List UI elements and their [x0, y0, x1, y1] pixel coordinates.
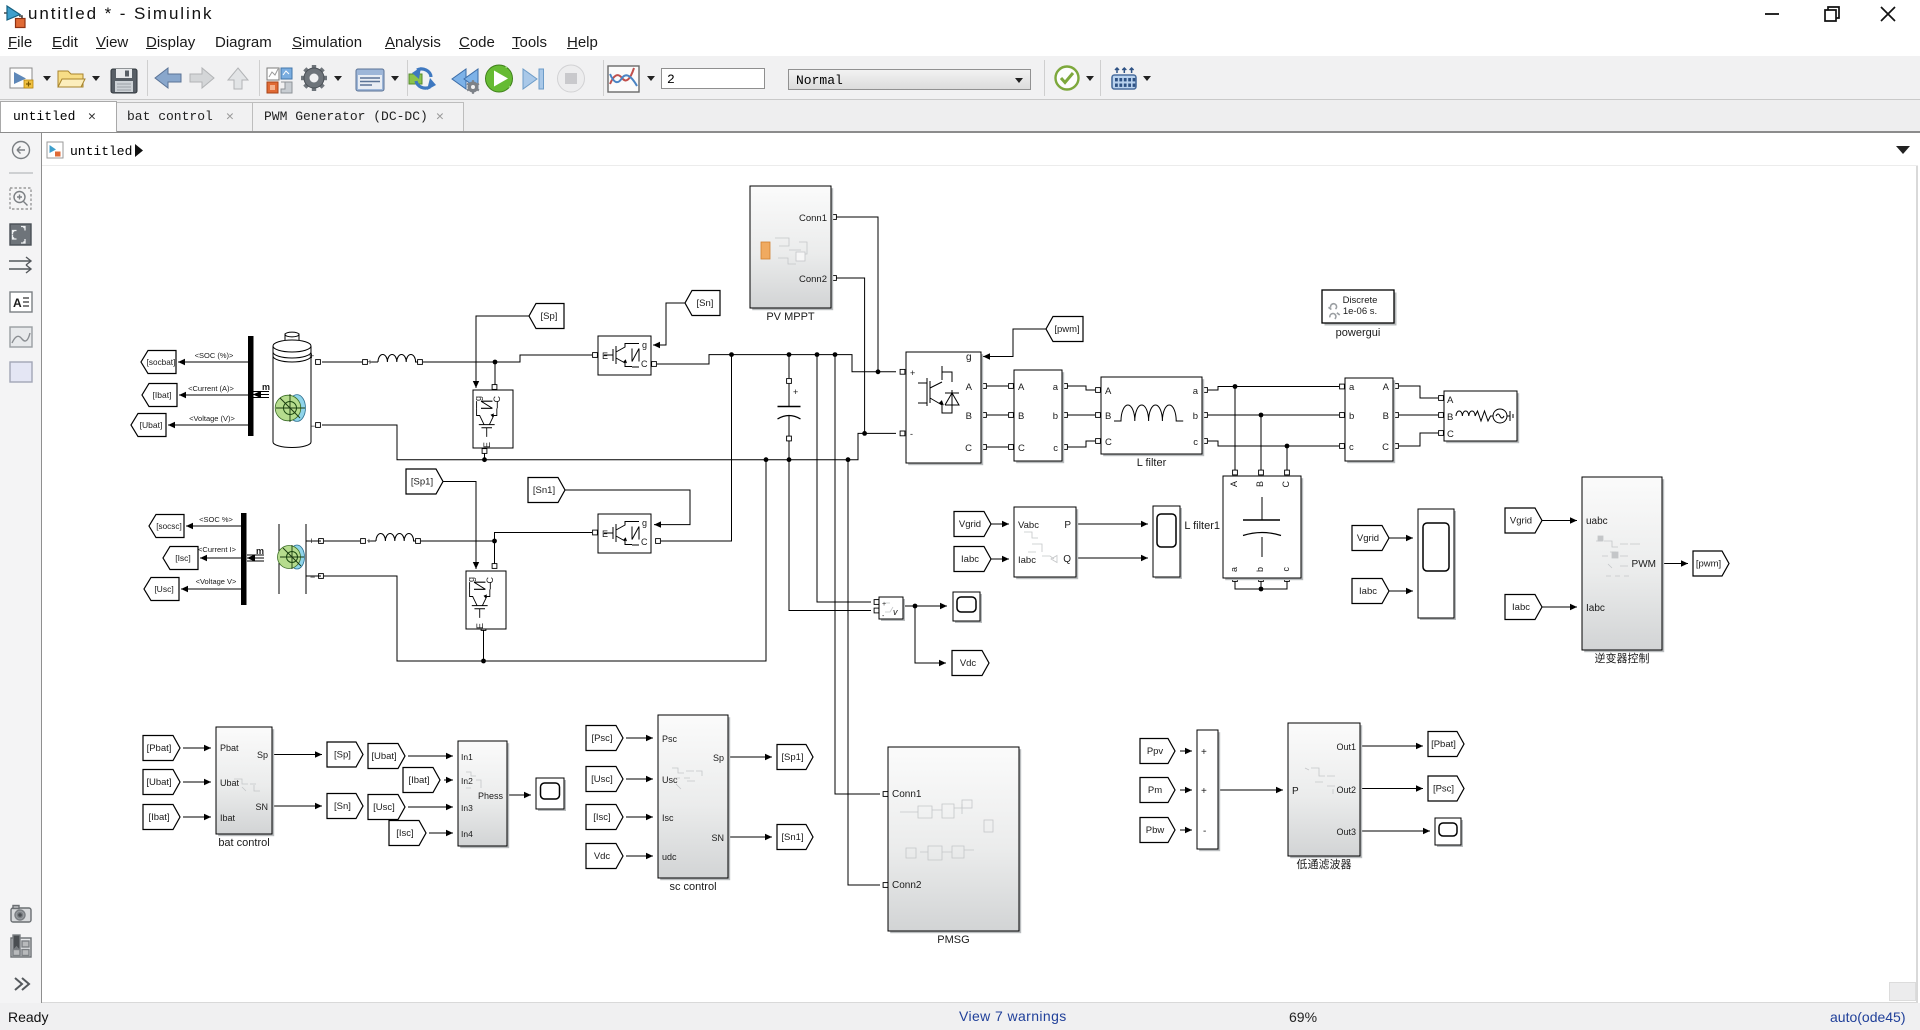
wire from Iabc to PQ Iabc	[990, 556, 1009, 562]
svg-text:b: b	[1193, 411, 1198, 422]
DC link capacitor C1	[778, 355, 801, 460]
svg-text:bat control: bat control	[218, 837, 269, 849]
wire Vdc to sc control udc	[626, 853, 653, 859]
wire sc control SN to goto [Sn1]	[728, 834, 772, 840]
svg-text:[Sp1]: [Sp1]	[781, 752, 803, 763]
wire IGBT1 C to DC+ bus to bridge +, junction nodes	[652, 352, 905, 374]
svg-text:powergui: powergui	[1336, 327, 1381, 339]
wire node a down to C filter bank A	[1233, 387, 1238, 475]
svg-text:Ibat: Ibat	[220, 813, 236, 823]
from tag [Ubat] phess	[368, 744, 405, 769]
wire inductor L2 to IGBT4 E, node J2	[416, 530, 598, 543]
svg-text:Ppv: Ppv	[1147, 746, 1164, 757]
wire L filter a to measurement2 a, node to C filter A	[1203, 384, 1345, 392]
svg-text:A: A	[966, 382, 973, 393]
svg-text:+: +	[882, 601, 886, 608]
goto tag [Pbat]	[1428, 732, 1464, 757]
svg-text:A: A	[1018, 382, 1025, 393]
svg-text:[pwm]: [pwm]	[1054, 324, 1079, 335]
svg-text:1e-06 s.: 1e-06 s.	[1343, 306, 1377, 317]
wire PQ P to scope PQ	[1076, 521, 1148, 527]
wire measurement2 B to grid source B	[1394, 413, 1444, 418]
wire measurement2 A to grid source A	[1394, 384, 1444, 401]
svg-text:+: +	[309, 351, 314, 361]
wire voltage measurement v to scope Vdc	[905, 603, 947, 609]
wire bridge phase B to measurement1 B	[982, 413, 1014, 418]
svg-text:E: E	[482, 442, 492, 448]
svg-text:b: b	[1053, 411, 1058, 422]
svg-text:Conn2: Conn2	[892, 880, 922, 891]
IGBT1 chopper upper (battery) symbol	[604, 344, 639, 368]
from tag Iabc inverter	[1505, 595, 1542, 620]
bat control inner sketch	[234, 779, 260, 791]
wire measurement2 C to grid source C	[1394, 431, 1444, 449]
wire bat control SN to goto [Sn]	[272, 803, 322, 809]
wire bus-selector1 SOC to [socbat], arrow	[178, 359, 248, 365]
scope grid Vgrid/Iabc	[1418, 509, 1456, 620]
wire PQ Q to scope PQ	[1076, 555, 1148, 561]
svg-text:g: g	[466, 577, 476, 582]
wire bus-selector1 Current to [Ibat], arrow	[179, 392, 248, 398]
svg-text:g: g	[966, 352, 972, 363]
svg-text:[Ibat]: [Ibat]	[408, 775, 429, 786]
svg-text:PWM: PWM	[1632, 559, 1656, 570]
inverter control inner sketch	[1596, 536, 1640, 576]
svg-text:Q: Q	[1063, 554, 1071, 565]
svg-text:Phess: Phess	[478, 791, 504, 801]
svg-text:B: B	[1105, 411, 1111, 422]
bus selector 1 (battery measurements)	[248, 336, 254, 436]
svg-text:Iabc: Iabc	[1512, 602, 1530, 613]
wire measurement1 a to L filter A	[1063, 384, 1101, 393]
wire Ppv to sum +	[1180, 748, 1192, 754]
svg-text:uabc: uabc	[1586, 516, 1608, 527]
svg-text:c: c	[1281, 567, 1291, 572]
svg-text:[Usc]: [Usc]	[591, 774, 613, 785]
from tag [Psc]	[586, 726, 623, 751]
from tag Vgrid pq	[954, 512, 991, 537]
wire measurement1 c to L filter C	[1063, 439, 1101, 450]
from tag Pm	[1140, 778, 1175, 803]
inductor L2 series RL branch	[367, 534, 418, 546]
svg-text:udc: udc	[662, 852, 677, 862]
from tag [Ibat] row3	[143, 805, 180, 830]
display low-pass Out3	[1435, 818, 1463, 847]
svg-text:In1: In1	[461, 752, 473, 762]
wire supercap - bus up to DC- bus	[319, 460, 766, 661]
wire inductor L1 to IGBT1 E, node J1	[418, 353, 598, 365]
svg-text:Vgrid: Vgrid	[959, 519, 981, 530]
svg-text:[Usc]: [Usc]	[373, 802, 395, 813]
wire [Psc] to sc control Psc	[626, 735, 653, 741]
svg-text:C: C	[1382, 442, 1389, 453]
wire [Sn] to IGBT1 gate g	[653, 303, 685, 348]
svg-text:[Pbat]: [Pbat]	[147, 743, 172, 754]
svg-text:c: c	[1053, 443, 1058, 454]
svg-text:SN: SN	[711, 833, 724, 843]
svg-text:Discrete: Discrete	[1343, 295, 1378, 306]
svg-text:A: A	[1383, 382, 1390, 393]
wire [Ubat] to bat control Ubat	[183, 779, 211, 785]
wire from Vgrid to inverter control uabc	[1541, 517, 1577, 523]
three-phase VI measurement 1	[1014, 370, 1064, 463]
svg-text:Usc: Usc	[662, 775, 678, 785]
svg-text:Sp: Sp	[713, 753, 724, 763]
svg-text:C: C	[1018, 443, 1025, 454]
svg-text:+: +	[368, 358, 373, 367]
L filter inductor drawing	[1114, 405, 1183, 421]
from tag [Ibat] phess	[403, 768, 440, 793]
wire bridge phase A to measurement1 A	[982, 384, 1014, 389]
from tag Vdc	[586, 844, 623, 869]
goto tag [Ubat]	[131, 414, 166, 437]
wire from Vgrid to PQ Vabc	[990, 521, 1009, 527]
wire inverter control PWM to goto [pwm]	[1662, 560, 1688, 566]
svg-text:Pbw: Pbw	[1146, 825, 1165, 836]
svg-text:[Sn]: [Sn]	[697, 298, 714, 309]
from tag [Sn1]	[528, 478, 565, 503]
goto tag [socsc]	[149, 515, 184, 538]
wire measurement1 b to L filter B	[1063, 413, 1101, 418]
C filter bank rotated port labels and capacitor drawing	[1184, 481, 1291, 573]
svg-text:C: C	[641, 359, 648, 369]
IGBT3 chopper lower (supercap)	[466, 571, 506, 629]
svg-text:Iabc: Iabc	[961, 554, 979, 565]
svg-text:C: C	[1447, 429, 1454, 440]
svg-text:E: E	[475, 623, 485, 629]
svg-text:E: E	[602, 351, 608, 361]
svg-text:Vdc: Vdc	[960, 658, 977, 669]
svg-text:[socbat]: [socbat]	[147, 358, 176, 367]
wire from Vgrid to scope grid	[1389, 535, 1413, 541]
sc control inner sketch	[672, 768, 702, 789]
from tag Ppv	[1140, 739, 1175, 764]
wire node J2 down to IGBT3 C	[492, 541, 497, 568]
svg-text:a: a	[1349, 382, 1355, 393]
wire [Isc] to Phess In4	[429, 830, 453, 836]
wire [Sn1] to IGBT4 gate g	[564, 490, 690, 528]
svg-text:a: a	[1193, 386, 1199, 397]
wire L filter b to measurement2 b, node to C filter B	[1203, 413, 1345, 418]
svg-text:SN: SN	[255, 802, 268, 812]
svg-text:Iabc: Iabc	[1018, 555, 1036, 566]
svg-text:[Ubat]: [Ubat]	[371, 751, 396, 762]
svg-text:Vdc: Vdc	[594, 851, 611, 862]
battery m measurement bus wire	[253, 382, 270, 398]
svg-text:C: C	[965, 443, 972, 454]
svg-text:−: −	[310, 421, 315, 431]
wire Pbw to sum -	[1180, 827, 1192, 833]
svg-text:[Sn1]: [Sn1]	[533, 485, 555, 496]
IGBT4 chopper upper (supercap)	[598, 514, 651, 553]
svg-text:Ubat: Ubat	[220, 778, 240, 788]
wire DC- to voltage measurement -	[789, 460, 879, 613]
wire [Usc] to sc control Usc	[626, 776, 653, 782]
svg-text:A: A	[1447, 395, 1454, 406]
svg-text:-: -	[910, 429, 913, 439]
subsystem sc control	[658, 715, 730, 893]
svg-text:+: +	[793, 387, 798, 397]
from tag Iabc pq	[954, 547, 991, 572]
powergui block	[1322, 290, 1397, 339]
wire bus-selector2 Current to [Isc], arrow	[200, 555, 241, 561]
display Phess	[536, 778, 566, 811]
svg-text:[Psc]: [Psc]	[1433, 784, 1454, 795]
PQ power measurement block	[1014, 507, 1078, 579]
wire from Iabc to scope grid	[1389, 588, 1413, 594]
supercapacitor block	[278, 524, 322, 594]
subsystem Phess power calc	[458, 741, 509, 848]
from tag [pwm]	[1046, 317, 1083, 342]
svg-text:+: +	[1201, 786, 1207, 797]
wire [pwm] to universal bridge gate g	[983, 329, 1046, 360]
svg-text:[socsc]: [socsc]	[156, 522, 181, 531]
svg-text:[Isc]: [Isc]	[593, 812, 610, 823]
svg-text:[Isc]: [Isc]	[175, 553, 191, 563]
inductor L1 series RL branch	[368, 354, 420, 366]
wire PV MPPT Conn1 down to bridge + node	[832, 215, 878, 372]
svg-text:[Sp]: [Sp]	[334, 750, 351, 761]
svg-text:[pwm]: [pwm]	[1696, 559, 1721, 570]
wire from Iabc to inverter control Iabc	[1541, 604, 1577, 610]
svg-text:B: B	[966, 411, 972, 422]
wire C filter bank star point	[1233, 577, 1290, 592]
universal bridge (3-arm IGBT inverter)	[906, 352, 983, 465]
svg-text:In3: In3	[461, 803, 473, 813]
svg-text:PV MPPT: PV MPPT	[766, 311, 815, 323]
supercap m measurement bus wire	[247, 546, 264, 562]
svg-text:g: g	[473, 396, 483, 401]
goto tag Vdc	[952, 651, 989, 676]
wire node c down to C filter bank C	[1285, 446, 1290, 475]
from tag [Usc] sc	[586, 767, 623, 792]
goto tag [Ibat]	[142, 384, 177, 407]
goto tag [Sp1]	[777, 745, 813, 770]
wire DC- down to PMSG Conn2	[848, 460, 888, 888]
IGBT2 chopper lower (battery)	[473, 390, 513, 448]
wire Phess out to display	[507, 792, 531, 798]
svg-text:[Ubat]: [Ubat]	[140, 420, 163, 430]
svg-text:逆变器控制: 逆变器控制	[1595, 651, 1650, 665]
IGBT2 chopper lower (battery) symbol and rotated pin labels	[473, 396, 502, 449]
battery block (Battery)	[273, 332, 315, 447]
svg-text:c: c	[1193, 437, 1198, 448]
svg-text:Conn2: Conn2	[799, 274, 827, 285]
wire node b down to C filter bank B	[1259, 415, 1264, 475]
from tag [Sp]	[529, 304, 564, 329]
wire sum out to low-pass filter P	[1218, 787, 1283, 793]
wire IGBT3 E down to sc - bus	[481, 626, 486, 664]
svg-text:−: −	[310, 572, 315, 582]
scope PQ	[1153, 506, 1182, 579]
svg-text:P: P	[1292, 786, 1299, 797]
svg-text:b: b	[1255, 567, 1265, 572]
grid source R-L-AC drawing	[1456, 409, 1513, 423]
from tag Vgrid inverter	[1505, 508, 1542, 533]
wire bridge phase C to measurement1 C	[982, 445, 1014, 450]
wire battery - along DC- bus to bridge -, junction nodes	[316, 423, 905, 463]
wire DC+ down to PMSG Conn1	[835, 355, 888, 797]
svg-text:[Sn]: [Sn]	[334, 801, 351, 812]
svg-text:a: a	[1229, 567, 1239, 572]
svg-text:b: b	[1349, 411, 1354, 422]
svg-text:g: g	[642, 340, 647, 350]
wire [Ibat] to Phess In2	[444, 777, 453, 783]
wire L filter c to measurement2 c, node to C filter C	[1203, 439, 1345, 449]
wire bus-selector1 Voltage to [Ubat], arrow	[168, 422, 248, 428]
svg-text:C: C	[641, 537, 648, 547]
wire PV MPPT Conn2 down to bridge - node	[832, 276, 865, 434]
svg-text:<Current I>: <Current I>	[198, 545, 237, 554]
wire bus-selector2 SOC to [socsc], arrow	[186, 523, 241, 529]
PQ measurement inner sketch	[1024, 532, 1057, 563]
wire DC+ bus down to IGBT4 C	[656, 355, 732, 544]
svg-text:B: B	[1447, 412, 1453, 423]
wire [Sp1] to IGBT3 gate g	[442, 482, 479, 570]
svg-text:<Voltage (V)>: <Voltage (V)>	[189, 414, 235, 423]
IGBT1 chopper upper (battery)	[598, 336, 651, 375]
from tag Iabc scope	[1352, 579, 1389, 604]
from tag [Isc] sc	[586, 805, 623, 830]
PMSG inner sketch	[900, 800, 993, 860]
svg-text:Conn1: Conn1	[892, 789, 922, 800]
svg-text:Vabc: Vabc	[1018, 520, 1039, 531]
svg-text:Out3: Out3	[1336, 827, 1356, 837]
svg-text:+: +	[910, 368, 915, 378]
svg-text:A: A	[1105, 386, 1112, 397]
svg-text:[Sp]: [Sp]	[541, 311, 558, 322]
IGBT4 chopper upper (supercap) symbol	[604, 522, 639, 546]
wire Pm to sum +	[1180, 787, 1192, 793]
subsystem PV MPPT	[750, 186, 833, 323]
goto tag [pwm]	[1693, 551, 1729, 576]
from tag [Sp1]	[406, 469, 443, 494]
from tag Vgrid scope	[1352, 526, 1389, 551]
svg-text:m: m	[262, 382, 270, 392]
svg-text:[Isc]: [Isc]	[396, 828, 413, 839]
svg-text:+: +	[1201, 747, 1207, 758]
svg-text:Iabc: Iabc	[1586, 603, 1605, 614]
sum block	[1197, 730, 1220, 851]
svg-text:B: B	[1383, 411, 1389, 422]
svg-text:m: m	[256, 546, 264, 556]
svg-text:Iabc: Iabc	[1359, 586, 1377, 597]
svg-text:P: P	[1064, 520, 1071, 531]
from tag [Usc] phess	[368, 795, 405, 820]
svg-text:Sp: Sp	[257, 750, 268, 760]
scope Vdc	[953, 592, 982, 623]
svg-text:v: v	[893, 607, 898, 617]
DC voltage measurement block	[879, 597, 905, 621]
svg-text:Vgrid: Vgrid	[1510, 516, 1532, 527]
svg-text:[Sn1]: [Sn1]	[781, 832, 803, 843]
from tag [Ubat] row3	[143, 770, 180, 795]
svg-text:<SOC (%)>: <SOC (%)>	[195, 351, 234, 360]
universal bridge gate label color + symbol	[918, 352, 972, 413]
wire [Ibat] to bat control Ibat	[183, 814, 211, 820]
svg-text:[Pbat]: [Pbat]	[1431, 739, 1456, 750]
from tag [Isc] phess	[389, 821, 426, 846]
goto tag [Sn1]	[777, 825, 813, 850]
goto tag [socbat]	[141, 351, 176, 374]
svg-text:sc control: sc control	[669, 881, 716, 893]
svg-text:PMSG: PMSG	[937, 934, 969, 946]
svg-text:[Usc]: [Usc]	[154, 584, 173, 594]
goto tag [Usc]	[144, 578, 179, 601]
svg-text:Conn1: Conn1	[799, 213, 827, 224]
svg-text:In4: In4	[461, 829, 473, 839]
svg-text:低通滤波器: 低通滤波器	[1297, 858, 1352, 871]
svg-text:C: C	[1105, 437, 1112, 448]
svg-text:[Psc]: [Psc]	[591, 733, 612, 744]
svg-text:[Ibat]: [Ibat]	[148, 812, 169, 823]
wire [Ubat] to Phess In1	[408, 753, 453, 759]
svg-text:Pbat: Pbat	[220, 743, 239, 753]
svg-text:g: g	[642, 518, 647, 528]
from tag Pbw	[1140, 818, 1175, 843]
svg-text:<Current (A)>: <Current (A)>	[188, 384, 234, 393]
svg-text:Psc: Psc	[662, 734, 678, 744]
wire supercap + to inductor L2	[319, 539, 366, 544]
C filter bank (L filter1)	[1223, 476, 1303, 580]
svg-text:B: B	[1255, 481, 1265, 487]
svg-text:Out2: Out2	[1336, 785, 1356, 795]
svg-text:L filter1: L filter1	[1184, 520, 1220, 532]
wire [Usc] to Phess In3	[408, 804, 453, 810]
goto tag [Isc]	[163, 547, 198, 570]
wire node J1 down to IGBT2 C	[492, 362, 497, 389]
wire low-pass Out1 to goto [Pbat]	[1360, 743, 1423, 749]
wire bus-selector2 Voltage to [Usc], arrow	[181, 586, 241, 592]
svg-text:In2: In2	[461, 776, 473, 786]
svg-text:<Voltage V>: <Voltage V>	[196, 577, 237, 586]
wire DC+ to voltage measurement +	[817, 355, 879, 605]
goto tag [Sp]	[327, 742, 363, 767]
subsystem PMSG	[888, 747, 1021, 946]
svg-text:<SOC %>: <SOC %>	[199, 515, 233, 524]
svg-text:Out1: Out1	[1336, 742, 1356, 752]
from tag [Sn]	[685, 291, 720, 316]
svg-text:Vgrid: Vgrid	[1357, 533, 1379, 544]
wire battery + to inductor L1	[316, 360, 368, 365]
svg-text:L filter: L filter	[1137, 457, 1167, 469]
svg-text:+: +	[309, 536, 314, 546]
svg-text:E: E	[602, 529, 608, 539]
wire low-pass Out2 to goto [Psc]	[1360, 785, 1423, 791]
wire [Pbat] to bat control Pbat	[183, 745, 211, 751]
goto tag [Sn]	[327, 794, 363, 819]
wire low-pass Out3 to display	[1360, 828, 1430, 834]
wire Vdc node to goto Vdc	[915, 606, 946, 666]
wire sc control Sp to goto [Sp1]	[728, 754, 772, 760]
PV MPPT inner sketch	[761, 238, 807, 264]
svg-text:B: B	[1018, 411, 1024, 422]
bus selector 2 (supercap measurements)	[241, 513, 247, 605]
L filter block	[1101, 377, 1204, 469]
three-phase grid source	[1444, 391, 1519, 443]
subsystem bat control	[216, 727, 274, 849]
from tag [Pbat] row3	[143, 736, 180, 761]
svg-text:[Ubat]: [Ubat]	[146, 777, 171, 788]
three-phase VI measurement 2	[1345, 378, 1395, 463]
svg-text:C: C	[1281, 481, 1291, 488]
svg-text:a: a	[1053, 382, 1059, 393]
Phess inner sketch	[466, 772, 481, 788]
subsystem low-pass filter 低通滤波器	[1288, 723, 1362, 871]
svg-text:c: c	[1349, 442, 1354, 453]
subsystem inverter control 逆变器控制	[1582, 477, 1664, 665]
wire bat control Sp to goto [Sp]	[272, 751, 322, 757]
